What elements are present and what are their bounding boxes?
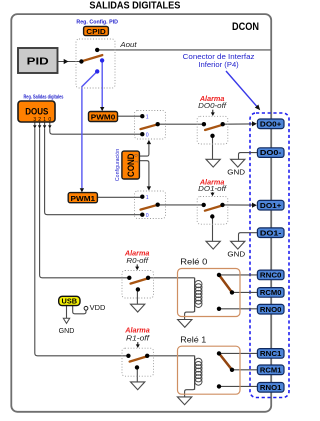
svg-text:CPID: CPID: [86, 27, 106, 36]
svg-text:Aout: Aout: [119, 40, 137, 49]
svg-text:DO1-off: DO1-off: [198, 186, 227, 193]
svg-text:Alarma: Alarma: [124, 248, 150, 257]
svg-text:Alarma: Alarma: [199, 94, 225, 103]
svg-text:PID: PID: [27, 56, 49, 67]
svg-text:PWM1: PWM1: [71, 194, 96, 203]
svg-text:GND: GND: [59, 326, 75, 335]
svg-text:DCON: DCON: [232, 21, 259, 33]
svg-text:Inferior (P4): Inferior (P4): [198, 60, 238, 69]
svg-text:1: 1: [43, 117, 46, 123]
svg-text:R0-off: R0-off: [126, 258, 149, 265]
svg-text:R1-off: R1-off: [126, 336, 150, 343]
svg-text:DO0-: DO0-: [260, 148, 282, 157]
svg-text:DOUS: DOUS: [25, 106, 48, 117]
svg-text:Relé 1: Relé 1: [180, 335, 206, 344]
svg-text:1: 1: [146, 115, 149, 121]
svg-text:Alarma: Alarma: [124, 326, 150, 335]
svg-text:0: 0: [146, 213, 149, 219]
svg-text:1 0: 1 0: [134, 154, 139, 163]
svg-text:RCM0: RCM0: [260, 288, 282, 297]
svg-text:RNC0: RNC0: [260, 271, 282, 280]
svg-text:RNC1: RNC1: [260, 349, 282, 358]
svg-text:RCM1: RCM1: [260, 365, 282, 374]
svg-text:0: 0: [146, 133, 149, 139]
svg-text:RNO1: RNO1: [260, 383, 282, 392]
svg-text:USB: USB: [62, 299, 78, 306]
svg-text:GND: GND: [227, 249, 245, 258]
svg-text:SALIDAS DIGITALES: SALIDAS DIGITALES: [89, 1, 180, 12]
svg-text:Configuración: Configuración: [115, 149, 121, 181]
svg-text:Reg. Salidas digitales: Reg. Salidas digitales: [24, 95, 64, 101]
svg-text:GND: GND: [227, 167, 245, 176]
svg-text:3: 3: [33, 117, 36, 123]
svg-text:1: 1: [146, 195, 149, 201]
svg-text:DO1-: DO1-: [260, 228, 282, 237]
svg-text:Relé 0: Relé 0: [180, 258, 208, 267]
svg-text:2: 2: [38, 117, 41, 123]
svg-text:PWM0: PWM0: [91, 113, 116, 122]
svg-text:DO0-off: DO0-off: [198, 103, 227, 110]
svg-text:RNO0: RNO0: [260, 305, 282, 314]
svg-text:0: 0: [48, 117, 51, 123]
svg-text:DO0+: DO0+: [260, 119, 282, 128]
svg-text:VDD: VDD: [90, 303, 106, 312]
svg-text:DO1+: DO1+: [260, 201, 282, 210]
svg-text:Reg. Config. PID: Reg. Config. PID: [76, 20, 118, 26]
